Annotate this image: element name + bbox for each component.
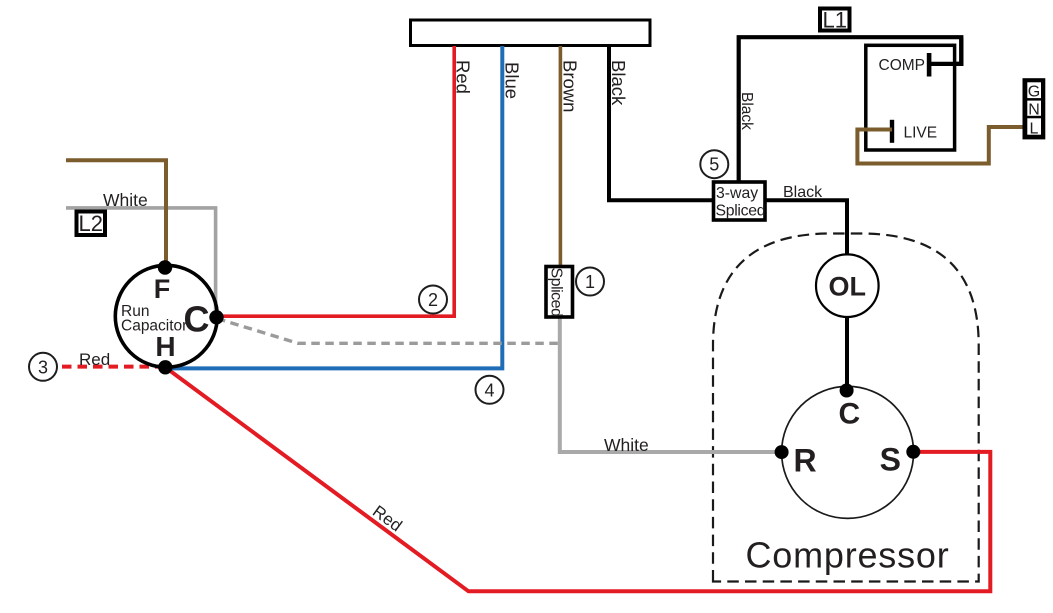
overload protector OL [816, 254, 879, 317]
wire white (L2 feed to capacitor C) [66, 208, 216, 317]
svg-text:F: F [154, 274, 171, 304]
capacitor terminal H dot [158, 360, 172, 374]
svg-text:LIVE: LIVE [904, 125, 938, 142]
svg-text:Spliced: Spliced [548, 268, 565, 317]
svg-text:Blue: Blue [502, 62, 523, 99]
callout circle 5 [700, 150, 728, 178]
svg-text:4: 4 [484, 380, 494, 400]
LIVE terminal bar [890, 120, 894, 143]
wire black (splice to OL) [765, 200, 847, 255]
callout circle 2 [419, 286, 447, 314]
COMP/LIVE relay box [866, 45, 955, 150]
svg-text:OL: OL [829, 272, 867, 302]
svg-text:COMP: COMP [879, 57, 926, 74]
svg-text:Black: Black [608, 60, 629, 106]
wire black (OL to motor C) [845, 317, 849, 391]
svg-text:2: 2 [428, 290, 438, 310]
run capacitor circle [115, 265, 217, 367]
motor circle [782, 386, 914, 518]
svg-text:Compressor: Compressor [745, 535, 949, 576]
motor terminal S dot [906, 445, 920, 459]
svg-text:Black: Black [783, 184, 823, 201]
dashed grey wire (capacitor C to white splice) [217, 319, 561, 344]
svg-text:C: C [838, 398, 860, 431]
callout circle 3 [29, 353, 57, 381]
svg-text:R: R [793, 443, 816, 479]
compressor housing dashed outline [713, 234, 979, 582]
svg-text:5: 5 [709, 155, 719, 175]
spliced joint box [546, 267, 573, 318]
svg-text:White: White [103, 190, 148, 210]
wire black (3-way splice up to L1 and COMP) [739, 37, 962, 182]
svg-text:Capacitor: Capacitor [121, 318, 187, 335]
svg-text:L1: L1 [822, 8, 846, 33]
svg-text:G: G [1028, 84, 1040, 101]
callout circle 4 [476, 376, 504, 404]
svg-text:3-way: 3-way [716, 185, 758, 202]
svg-text:L: L [1030, 121, 1039, 138]
svg-text:N: N [1028, 102, 1040, 119]
svg-text:1: 1 [585, 272, 595, 292]
COMP terminal bar [927, 53, 932, 77]
wire red (terminal strip to capacitor C) [217, 46, 454, 316]
motor terminal R dot [775, 445, 789, 459]
capacitor terminal F dot [158, 260, 172, 274]
svg-text:Brown: Brown [560, 60, 581, 112]
svg-text:L2: L2 [78, 211, 102, 236]
svg-text:S: S [880, 442, 901, 478]
svg-text:Red: Red [79, 350, 110, 369]
wire blue (terminal strip to capacitor H) [166, 46, 502, 368]
svg-text:Red: Red [453, 60, 474, 94]
capacitor terminal C dot [209, 310, 223, 324]
GNL terminal block [1023, 78, 1046, 139]
svg-text:C: C [184, 299, 210, 340]
wire brown (L feed to capacitor F) [66, 160, 166, 267]
wire black overlay into COMP terminal [931, 37, 961, 64]
svg-text:Black: Black [738, 92, 755, 130]
svg-text:H: H [155, 331, 175, 362]
3-way splice box [714, 182, 766, 220]
wire brown (terminal strip to spliced joint) [559, 46, 563, 267]
L1 terminal box [820, 9, 850, 31]
wire red (capacitor H to compressor S) [165, 367, 990, 591]
svg-text:3: 3 [38, 357, 48, 377]
wire brown (LIVE to GNL L) [857, 127, 1022, 164]
wire white (splice to compressor R) [560, 317, 782, 453]
terminal strip box [411, 20, 651, 46]
callout circle 1 [576, 268, 604, 296]
svg-text:White: White [604, 435, 649, 455]
red dashed wire (to capacitor H) [62, 365, 162, 369]
wire black (terminal strip to 3-way splice) [609, 46, 714, 200]
motor terminal C dot [840, 384, 854, 398]
L2 terminal box [77, 212, 106, 236]
svg-text:Spliced: Spliced [716, 203, 766, 220]
